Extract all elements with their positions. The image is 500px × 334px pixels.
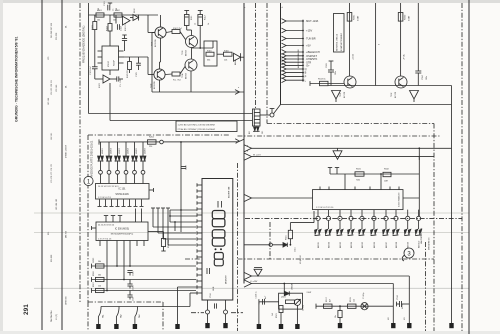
LED LD202 cathode wire [108,161,110,171]
svg-text:T104: T104 [182,74,184,78]
svg-text:LD203: LD203 [119,147,121,154]
wire C518 to x409 [402,303,410,305]
svg-text:1k0: 1k0 [98,8,100,11]
diode D515 [283,243,287,247]
resistor R531 [355,172,364,176]
connector bracket vertical [302,20,304,82]
wire C103 to N103 [94,69,96,79]
IC504 pin 9 [407,210,409,217]
svg-text:T502: T502 [391,93,393,97]
connector pin B [282,70,287,75]
board boundary dash-dot horizontal y136 [238,135,441,137]
connector pin +15V [282,28,287,33]
svg-text:L501: L501 [419,156,421,160]
test triangle TP1 [333,151,342,160]
IC101 bottom pin 2 [105,200,107,207]
svg-text:BD509: BD509 [408,241,410,248]
resistor R116 [224,52,233,56]
board boundary dash-dot vertical x267 [266,3,268,124]
svg-text:IC 500 (MOS): IC 500 (MOS) [115,229,129,231]
svg-text:N101 1/4: N101 1/4 [125,22,127,31]
svg-text:SI502: SI502 [405,14,407,20]
IC504 box [313,190,404,210]
switch TA3 [135,307,138,317]
resistor R102 [114,13,122,17]
svg-text:M5T4042BP/V4042(PC): M5T4042BP/V4042(PC) [111,234,134,236]
frequency table box [176,121,237,132]
svg-text:1 3 5 7 9 11 13: 1 3 5 7 9 11 13 [98,239,112,241]
svg-text:c: c [245,7,246,9]
wire N103 output [110,78,117,80]
node ring 1 callout [84,176,93,185]
svg-text:1k: 1k [208,23,210,25]
wire R105 C105 rail [123,56,148,58]
LED LD204 wire [125,142,127,156]
switch TA2 [116,307,119,317]
contact circle pin 6 [372,216,376,220]
supply rail horizontal y85 [328,85,452,87]
svg-text:10k: 10k [97,20,100,22]
svg-text:2.4W: 2.4W [307,292,312,294]
wire vertical x110 feedline [109,70,111,75]
wire IC500 pin row1b [129,246,131,266]
svg-text:C1.. 1n5: C1.. 1n5 [120,79,122,87]
display pin 17 [197,280,202,282]
contact circle LD204 [124,170,128,174]
capacitor C103 [92,66,98,68]
display digit 8 first [212,211,225,219]
display digit 1 segment b [221,201,223,208]
switch TA1 [98,307,101,317]
svg-text:SI501: SI501 [354,14,356,20]
svg-text:24 22 20 18 16 14: 24 22 20 18 16 14 [98,225,115,227]
diode pair BD506 [371,229,374,234]
wire T102 base feed [148,74,154,76]
diode pair BD505 [359,229,362,234]
svg-text:C506: C506 [133,285,135,290]
svg-text:4k7: 4k7 [330,299,332,302]
capacitor C115 top of IC [122,38,127,40]
regulator triangle D501 [332,91,341,100]
wire trimmer to pad [296,305,298,324]
pad solder point right rail [449,323,453,328]
display pin 8 [197,226,202,228]
svg-text:1 2 3 4 5 6 7 8: 1 2 3 4 5 6 7 8 [98,197,112,199]
module boundary dash-dot y259 [238,258,435,260]
connector pin MUT.-ANZ. [282,19,287,24]
capacitor C518 [399,301,401,307]
svg-text:R513 1k: R513 1k [318,79,325,81]
display pin 4 [197,202,202,204]
capacitor C507 [127,294,132,296]
display digit 1 segment a [217,201,219,208]
svg-text:BD502: BD502 [329,241,331,248]
resistor R101 [96,13,104,17]
connector pin P [282,74,287,79]
wire C101 stub [109,3,111,5]
wire T101 collector up [160,15,162,27]
svg-text:UKW 300: UKW 300 [66,296,68,305]
op-amp N101 [123,16,131,25]
IC102 pin stubs right [119,50,124,52]
connector pin Q [282,67,287,72]
contact circle bottom b [224,310,228,314]
svg-text:· G+: · G+ [305,64,311,68]
svg-text:1 2 3 4 5 6 7 8: 1 2 3 4 5 6 7 8 9 10 [316,207,334,209]
display pin 18 [197,286,202,288]
svg-text:P: P [305,75,307,79]
svg-text:185 184 183: 185 184 183 [56,198,58,210]
keyboard rail [101,306,190,308]
wire IC102 top [124,46,126,51]
contact circle pin 7 [384,216,388,220]
wire contact to IC101 pin 1 [100,174,102,184]
svg-text:C2 30p: C2 30p [303,305,305,311]
svg-text:BD/UHR TAB: BD/UHR TAB [228,186,231,198]
IC500 left pin [92,227,97,229]
display pin 16 [197,274,202,276]
wire T103 collector [186,26,188,31]
wire box top link [212,41,214,48]
LED LD203 wire [117,142,119,156]
bus wire vertical x88 [88,3,90,114]
diode pair BD504 [348,229,351,234]
wire R512 down [163,247,165,252]
wire y198 into IC504 [251,197,313,199]
pad solder point x177 [175,324,179,329]
resistor R111 vertical [184,15,189,26]
svg-text:BD503: BD503 [340,241,342,248]
margin rule line 2 [61,0,63,330]
diode pair BD509 [404,229,407,234]
svg-text:d: d [282,7,283,9]
wire pin 10 down [418,221,420,230]
svg-text:162 161: 162 161 [51,132,53,140]
diode D522 on box edge [284,291,289,295]
board boundary dash-dot vertical x255 [255,3,257,108]
oscillator box [279,293,303,309]
connector pin STR [282,60,287,65]
contact circle LD205 [133,170,137,174]
signal arrow on rail y92 [235,90,240,95]
svg-text:0.8AT: 0.8AT [357,15,360,21]
netzteil label box [334,14,345,53]
resistor R519 [348,304,357,308]
LED LD202 wire [108,142,110,156]
ring 3 tail [402,255,404,261]
pad solder point x393 [391,323,395,328]
svg-text:M2: M2 [388,317,390,320]
contact circle bottom a [206,310,210,314]
capacitor C101 [107,5,109,11]
IC500 right pin to R512 [148,231,164,233]
stub y174 b [336,168,338,175]
contact circle pin 8 [394,216,398,220]
dash-dot edge y312 segment b [231,312,243,314]
zener pair D520 [254,269,262,276]
pad solder point R523 [279,324,283,329]
capacitor C520 [262,299,264,305]
wire T101 base feed [147,15,149,33]
svg-text:KOMPLETTGERÄT: KOMPLETTGERÄT [340,33,343,51]
svg-text:AUSSENGEHÄUSE: AUSSENGEHÄUSE [297,49,300,68]
svg-text:C507: C507 [133,296,135,301]
svg-text:359 358: 359 358 [56,32,58,40]
LED LD202 [106,156,109,161]
bus exit funnel y276 [244,272,252,279]
switch TA3 wire to pad [134,317,136,325]
IC101 bottom pin 8 [141,200,143,207]
svg-text:349 348 347 346: 349 348 347 346 [51,22,53,38]
wire pin 3 down [339,221,341,230]
node circle on rail [160,140,164,144]
wire C517 to pad [339,306,341,310]
resistor R523 vertical [279,306,283,313]
wire output y276 [251,275,410,277]
module boundary dash-dot y259 left segment [185,258,201,260]
wire signal y148 [251,147,452,149]
IC500 top stub 3 [119,216,121,222]
routing wire display 1 [152,208,154,227]
capacitor C506 [127,283,132,285]
wire R108 to T104 base [180,67,185,75]
resistor R204 [148,140,157,144]
svg-text:T501: T501 [340,93,342,97]
connector pin +BELEUCH [282,50,287,55]
svg-text:· +15V: · +15V [305,29,313,33]
wire cross y48 [192,47,214,49]
svg-text:BD506: BD506 [374,241,376,248]
capacitor C517 vertical [338,311,342,318]
wire x409 to pad [408,276,410,323]
svg-text:BD508: BD508 [396,241,398,248]
IC504 pin 6 [373,210,375,217]
bus exit funnel y156 [244,153,252,160]
IC101 bottom pin 3 [111,200,113,207]
scan edge strip bottom [0,331,500,334]
IC500 bottom pin 2 [106,241,108,247]
keyboard board dash-dot right edge x163 [162,302,164,331]
resistor R107 [172,30,180,34]
IC504 pin 1 [317,210,319,217]
IC102 box [102,46,119,70]
contact circle pin 10 [417,216,421,220]
trimmer C2 [294,299,300,305]
wire pin 5 down [361,221,363,230]
IC500 bottom pin 4 [123,241,125,247]
wire supply column 2 [375,3,377,86]
connector pin OSZ/SKT [282,53,287,58]
resistor R517 [324,304,333,308]
stub y174 a [329,168,331,175]
board boundary dash-dot vertical x462 [461,3,463,331]
display pin 6 [197,214,202,216]
board boundary dash-dot vertical x80 [79,3,81,302]
resistor R516 vertical [288,230,292,238]
rail ramp into bus [239,139,245,142]
connector BU201 body [253,109,261,126]
wire node to supply rail [274,105,281,114]
wire IC101 pin to IC500 a [135,209,137,223]
diode pair BD501 [315,229,318,234]
LED LD203 [115,156,118,161]
svg-text:BC413B: BC413B [154,81,156,89]
wire column3 to T502 [400,21,402,76]
svg-text:BC158: BC158 [344,91,346,98]
svg-text:MEMORY: MEMORY [226,274,228,284]
IC500 box [96,222,148,241]
svg-text:56k: 56k [98,261,101,263]
IC504 pin 5 [361,210,363,217]
keyboard board dash-dot top edge y302 [88,301,163,303]
wire y174 to IC504 b [380,174,382,190]
switch TA2 wire to pad [115,317,117,325]
paper fold line 3 [34,287,469,289]
IC500 top stub 2 [112,216,114,222]
junction rail to x181 [180,141,182,143]
wire IC500 pin row1 [116,246,118,266]
connector pin G+ [282,63,287,68]
display board dash-dot top edge y135 [88,134,230,136]
capacitor C102 [116,24,118,30]
pad solder point C517 [338,323,342,328]
LED LD204 [123,156,126,161]
resistor R103 vertical [93,22,97,30]
transistor T501 [344,76,356,88]
wire x419 drop [418,148,420,216]
IC101 box [96,184,150,200]
resistor R507 [96,288,105,292]
svg-text:154 153 152 151: 154 153 152 151 [51,79,53,95]
wire display bottom b [225,300,227,310]
display board dash-dot right edge x237 [237,163,239,331]
LED LD203 cathode wire [117,161,119,171]
supply rail horizontal y104 [281,104,452,106]
svg-text:DM 300: DM 300 [66,230,68,238]
contact circle pin 9 [406,216,410,220]
fuse SI502 [398,13,403,22]
svg-text:R523: R523 [276,313,278,318]
wire C520 pad drop [258,302,260,324]
wire pin 1 down [317,221,319,230]
wire IC504 link to column [403,197,419,199]
display pin 14 [197,262,202,264]
ladder wire y210 [170,209,197,211]
display IC501 box [202,179,233,301]
svg-text:BF234: BF234 [186,72,188,79]
wire T103 emitter to T104 collector [191,48,193,59]
svg-text:C505: C505 [133,271,135,276]
wire top rail y15 [89,14,159,16]
svg-text:R1.. 7k4: R1.. 7k4 [173,80,181,82]
svg-text:145 144: 145 144 [48,97,50,105]
node circle x272 [270,113,274,117]
svg-text:R516: R516 [286,235,288,240]
IC500 bottom pin 3 [116,241,118,247]
wire x393 to pad [392,284,394,324]
svg-text:1k4: 1k4 [98,286,101,288]
connector pin L [282,78,287,83]
IC504 pin 3 [339,210,341,217]
wire speaker y244 [244,244,283,246]
wire column1 to T501 [349,21,351,76]
wire display pin to keyboard rail [190,292,197,294]
diode D102 [133,15,139,21]
pad solder point display b [223,323,227,328]
svg-text:1n: 1n [113,9,115,11]
wire R112 column [199,26,201,49]
wire pin 7 down [385,221,387,230]
IC101 bottom pin 4 [117,200,119,207]
display digit 8 small [214,253,223,260]
wire y174 to IC504 a [344,174,346,190]
svg-text:BF234: BF234 [186,49,188,56]
wire display bottom a [207,300,209,310]
svg-text:GRUNDIG · TECHNISCHE INFORMATI: GRUNDIG · TECHNISCHE INFORMATIONEN 5/8 ’… [15,37,19,122]
svg-text:10k: 10k [224,60,227,62]
contact circle speaker [269,243,272,246]
svg-text:R512 10k: R512 10k [168,240,170,248]
svg-text:AA143: AA143 [234,59,237,65]
svg-text:SN74LS42N: SN74LS42N [115,193,129,196]
display pin 2 [197,190,202,192]
svg-text:LD202: LD202 [111,147,113,154]
board boundary dash-dot horizontal y123 [267,123,434,125]
wire row R506 [92,279,197,281]
resistor R115 [206,52,214,56]
contact circle LD202 [107,170,111,174]
svg-text:179 178 177 176 175: 179 178 177 176 175 [51,163,53,183]
contact circle LD203 [116,170,120,174]
diode below connector [254,127,256,131]
wire R516 down to diode [289,239,291,245]
svg-text:Q501: Q501 [281,297,286,299]
svg-text:4n7: 4n7 [265,296,267,299]
svg-text:UHR: UHR [213,286,215,291]
contact circle pin 3 [338,216,342,220]
svg-text:M1: M1 [404,317,406,320]
IC504 top pin stubs [319,187,321,190]
node stub up [271,109,273,114]
bottom rail y92 [152,91,244,93]
resistor R105 vertical [128,62,132,70]
paper fold line 2 [34,232,469,234]
ladder wire y222 [170,221,197,223]
svg-text:IC 101: IC 101 [118,188,126,191]
svg-text:LAUTSPRECHER: LAUTSPRECHER [420,227,423,244]
svg-text:1.25V BD 522 KHZ | 2.4V BD 186: 1.25V BD 522 KHZ | 2.4V BD 186 MHZ [178,124,216,126]
svg-text:LD206: LD206 [145,147,147,154]
wire pin 6 down [373,221,375,230]
svg-text:0.8AT: 0.8AT [408,15,411,21]
svg-text:220: 220 [149,146,152,148]
transistor T103 [186,36,198,48]
display pin 9 [197,232,202,234]
display digit 8 second [212,230,225,238]
svg-text:U +43V: U +43V [250,281,258,283]
IC102 pin stubs left [98,50,103,52]
pad solder point TA2 [114,324,118,329]
svg-text:IC102: IC102 [108,60,110,67]
wire pin 4 down [350,221,352,230]
dash-dot speaker enclosure edge [269,222,271,259]
connector pin +5V [282,43,287,48]
LED LD206 wire [142,142,144,156]
svg-text:C520 1u: C520 1u [256,291,258,298]
svg-text:S041P: S041P [114,59,116,66]
bus wire vertical x280 [280,3,282,105]
diode D101 [234,53,241,61]
